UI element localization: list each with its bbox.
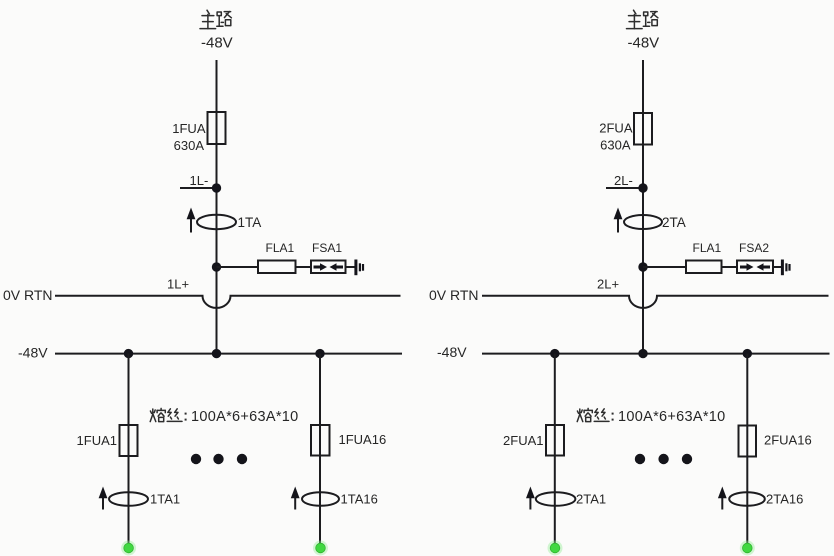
node 2L junction to arrester branch: [638, 262, 647, 271]
wire 0V RTN bus right (with hop at main wire): [482, 296, 829, 308]
svg-text:-48V: -48V: [437, 344, 467, 360]
wire to FLA1 (right): [643, 266, 686, 268]
terminal green (2TA16 output): [740, 541, 755, 556]
surge protector FSA2: [737, 261, 773, 274]
svg-text:FLA1: FLA1: [266, 241, 295, 255]
arrester FLA1 (right): [686, 261, 722, 274]
wire 0V RTN bus left (with hop at main wire): [55, 296, 401, 308]
ellipsis dots (left): [191, 454, 201, 464]
surge protector FSA1: [311, 261, 346, 274]
earth terminal (left surge branch): [356, 260, 363, 276]
node 1L-: [180, 173, 221, 193]
wire branch 16 (2FUA16 feeder): [746, 354, 748, 546]
earth terminal (right surge branch): [782, 260, 789, 276]
fuse 1FUA1: [120, 425, 138, 456]
junction bus-branch A: [124, 349, 133, 358]
fuse 2FUA 630A: [634, 113, 652, 145]
junction bus-main left: [212, 349, 221, 358]
wire branch 1 (1FUA1 feeder): [128, 354, 130, 546]
junction bus-branch B (right): [743, 349, 752, 358]
node 1L junction to arrester branch: [212, 262, 221, 271]
note 熔丝: 100A*6+63A*10 (left): [150, 408, 298, 425]
svg-text:2L-: 2L-: [614, 173, 633, 188]
svg-text:2FUA: 2FUA: [599, 121, 633, 136]
wire -48V bus left: [55, 353, 402, 355]
current transformer 1TA1: [99, 487, 181, 510]
svg-text:1FUA1: 1FUA1: [77, 433, 117, 448]
fuse 2FUA1: [546, 425, 564, 456]
wire -48V bus right: [482, 353, 830, 355]
current transformer 1TA: [187, 208, 262, 233]
svg-text:1L+: 1L+: [167, 277, 189, 292]
terminal green (1TA16 output): [313, 541, 328, 556]
label 主路 (right feeder title): [627, 10, 658, 28]
current transformer 2TA16: [718, 487, 803, 510]
svg-text:630A: 630A: [174, 138, 205, 153]
wire branch 1 (2FUA1 feeder): [554, 354, 556, 546]
svg-text:-48V: -48V: [628, 35, 660, 52]
svg-text:FLA1: FLA1: [693, 241, 722, 255]
fuse 1FUA 630A: [208, 112, 226, 144]
svg-text:0V RTN: 0V RTN: [429, 287, 479, 303]
svg-text:2TA16: 2TA16: [766, 492, 803, 507]
note 熔丝: 100A*6+63A*10 (right): [577, 408, 725, 425]
fuse 1FUA16: [311, 425, 330, 456]
svg-text:-48V: -48V: [201, 35, 233, 52]
svg-text:1TA1: 1TA1: [150, 492, 180, 507]
junction bus-main right: [638, 349, 647, 358]
svg-text:1TA: 1TA: [238, 215, 262, 230]
svg-text:2FUA1: 2FUA1: [503, 433, 543, 448]
arrester FLA1: [258, 261, 296, 274]
svg-text:1L-: 1L-: [190, 173, 209, 188]
svg-text:2L+: 2L+: [597, 277, 619, 292]
wire main vertical right (node 2L): [642, 60, 644, 354]
junction bus-branch A (right): [550, 349, 559, 358]
junction bus-branch B: [315, 349, 324, 358]
svg-text:FSA2: FSA2: [739, 241, 769, 255]
current transformer 2TA1: [526, 487, 606, 510]
terminal green (1TA1 output): [121, 541, 136, 556]
svg-text:1FUA: 1FUA: [172, 121, 206, 136]
svg-text:2TA: 2TA: [662, 215, 686, 230]
svg-text:-48V: -48V: [18, 345, 48, 361]
svg-text:1TA16: 1TA16: [341, 492, 378, 507]
svg-text:2FUA16: 2FUA16: [764, 433, 812, 448]
wire FLA1 to FSA1: [296, 266, 312, 268]
wire FSA2 to earth: [773, 266, 781, 268]
wire FSA1 to earth: [346, 266, 355, 268]
svg-text:100A*6+63A*10: 100A*6+63A*10: [618, 409, 726, 425]
svg-text:100A*6+63A*10: 100A*6+63A*10: [191, 409, 299, 425]
wire branch 16 (1FUA16 feeder): [319, 354, 321, 546]
current transformer 2TA: [614, 208, 686, 233]
current transformer 1TA16: [291, 487, 378, 510]
wire to FLA1: [217, 266, 259, 268]
label 主路 (left feeder title): [200, 10, 231, 28]
wire FLA1 to FSA2: [722, 266, 738, 268]
node 2L-: [606, 173, 648, 193]
ellipsis dots (right): [635, 454, 645, 464]
svg-text:630A: 630A: [600, 138, 631, 153]
svg-text:0V RTN: 0V RTN: [3, 287, 53, 303]
svg-text:2TA1: 2TA1: [576, 492, 606, 507]
svg-text:FSA1: FSA1: [312, 241, 342, 255]
svg-text:1FUA16: 1FUA16: [339, 432, 387, 447]
fuse 2FUA16: [739, 426, 757, 457]
wire main vertical left (node 1L): [216, 60, 218, 354]
terminal green (2TA1 output): [548, 541, 563, 556]
